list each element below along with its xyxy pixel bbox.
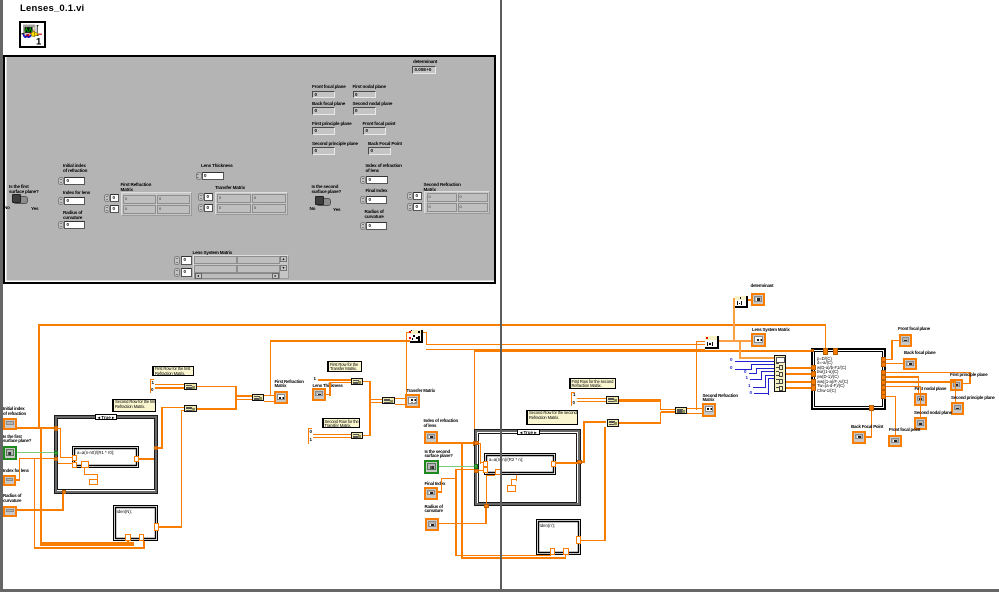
page divider line [500, 0, 502, 589]
comment: Second Row for the first Refraction Matrix [112, 399, 156, 413]
formula node top tunnels [823, 348, 828, 355]
wires: build arrays to merge1 [197, 386, 237, 388]
FP: Back Focal Point [368, 141, 402, 146]
FP: Lens Thickness [201, 163, 233, 168]
case structure 2 [474, 429, 581, 506]
wire: radius2 to case2 bottom tunnel [439, 523, 487, 525]
terminal: determinant (indicator) [750, 284, 780, 308]
build array: first refraction row1 [184, 383, 197, 390]
FP: First principle plane [312, 121, 351, 126]
formula node left tunnels [811, 365, 816, 371]
comment: First Row for the second Refraction Matrix [569, 378, 616, 389]
terminal: Radius of curvature 2 (control) [425, 505, 455, 533]
wire: final index to case2 left tunnel + down branch to Iden2 [438, 491, 442, 493]
FP: Lens System Matrix [193, 250, 233, 255]
wire: index for lens to case1 [16, 479, 20, 481]
formula node 2 terminals [483, 461, 488, 467]
constants 1,0 for second refraction row1 [571, 392, 572, 407]
wire: boolean2 to case2 selector [439, 466, 474, 467]
terminal: Transfer Matrix (indicator) [405, 389, 435, 411]
formula node 2 [484, 453, 556, 475]
formula node 1 [72, 446, 139, 468]
FP: determinant [413, 59, 437, 64]
build array: merge second refraction matrix [675, 407, 688, 414]
build array: merge first refraction matrix [252, 394, 264, 401]
terminal: Back focal plane (indicator) [903, 351, 935, 373]
FP: Second nodal plane [353, 101, 393, 106]
formula node 1 terminals [72, 455, 77, 461]
formula node: Iden1 [113, 505, 158, 541]
wire: branch down to Iden1 (thin) [34, 458, 35, 549]
build array: transfer row1 [351, 378, 363, 385]
wire: thick bottom run to Iden1 [40, 542, 134, 546]
wire: out to Second nodal plane [886, 386, 921, 388]
FP: Radius of curvature (1) [63, 210, 82, 220]
node: matrix multiply 2 [705, 336, 719, 349]
FP: Initial index of refraction [63, 163, 87, 173]
case1 selector [95, 414, 117, 420]
FP: First Refraction Matrix [121, 182, 152, 192]
formula node: Iden2 [536, 519, 581, 555]
big formula node: cardinal points [811, 348, 887, 410]
FP: Front focal plane [312, 84, 346, 89]
VI title [20, 3, 84, 14]
wire: determinant to indicator [748, 299, 752, 301]
wire: case1 output to build array row2 [139, 458, 155, 460]
FP: Index for lens [63, 190, 90, 195]
terminal: Second principle plane (indicator) [951, 396, 999, 416]
wire: merge2 to Transfer Matrix terminal [395, 398, 406, 405]
terminal: Second Refraction Matrix (indicator) [702, 394, 734, 418]
case2 tunnels [474, 441, 479, 446]
wires: transfer rows to merge2 [363, 381, 371, 383]
wire: top long run (n0 to big formula node) [38, 324, 826, 326]
terminal: Lens System Matrix (indicator) [751, 328, 787, 350]
wire: boolean to case1 selector [17, 452, 55, 453]
terminal: Index for lens (control) [3, 469, 33, 487]
wire: n0 terminal to case1 tunnel [16, 427, 56, 429]
constants 1,0 for first refraction row1 [150, 379, 151, 393]
FP: First nodal plane [353, 84, 386, 89]
wire: case2 output up to build array [556, 462, 578, 464]
terminal: Index of refraction of lens (control) [424, 419, 458, 445]
wire: first refraction matrix to multiply1 input [270, 340, 410, 342]
build array: second refraction row1 [606, 396, 619, 404]
front panel background [3, 55, 496, 284]
formula node 1 sub-constant [89, 479, 99, 486]
wire: bottom tunnel to Back Focal Point [871, 411, 873, 437]
terminal: Is the first surface plane? (boolean control) [3, 435, 37, 461]
build array: transfer row2 [351, 432, 363, 440]
wire: out to Front focal point [886, 396, 896, 398]
window bottom scrollbar strip [0, 589, 999, 592]
comment: Second Row for the second Refraction Matrix [526, 410, 578, 425]
wire: out to First principle plane [886, 372, 971, 374]
wire: up branch to determinant node [733, 298, 735, 342]
terminal: Initial index of refraction (control) [3, 407, 33, 431]
wire: n to case2 tunnel + up branch to formula node [438, 442, 474, 444]
wire: Iden1 output up to build array row2 input2 [159, 526, 183, 528]
wire: transfer matrix up to multiply1 [406, 332, 408, 394]
terminal: Is the second surface plane? (boolean control) [424, 450, 458, 476]
wire: radius1 to case1 bottom tunnel [17, 509, 64, 511]
comment: First Row for the Transfer Matrix [327, 361, 362, 372]
node: matrix multiply 1 (A x B) [406, 332, 410, 333]
terminal: Lens Thickness (control) [312, 384, 342, 402]
VI icon [19, 21, 46, 48]
wire: down branch to index array [739, 341, 741, 359]
wire: n0 vertical riser (up to top run, down to bottom run) [38, 324, 40, 428]
window left scrollbar strip [0, 0, 3, 592]
constant 1 for transfer row1 [314, 377, 317, 382]
formula node bottom tunnel [869, 405, 874, 411]
wire: multiply2 output to Lens System Matrix terminal [719, 340, 751, 342]
FP: Front focal point [363, 121, 396, 126]
node: determinant function [735, 296, 748, 308]
build array: first refraction row2 [184, 405, 197, 412]
terminal: First principle plane (indicator) [950, 373, 990, 393]
comment: First Row for the first Refraction Matrix [152, 366, 194, 377]
build array: second refraction row2 [607, 419, 620, 427]
terminal: Radius of curvature 1 (control) [3, 494, 33, 518]
terminal: Second nodal plane (indicator) [914, 411, 950, 431]
case1 interior wiring [58, 428, 61, 429]
wires: second refraction rows to merge3 [619, 399, 661, 402]
formula node right tunnels [881, 357, 886, 362]
terminal: First nodal plane (indicator) [914, 387, 946, 407]
wire: out to Front focal plane [886, 359, 893, 361]
node: index array [774, 355, 786, 392]
wires: index array outputs to formula node left tunnels [786, 367, 812, 369]
wire: out to First nodal plane [886, 376, 919, 378]
FP: Is the first surface plane? switch [9, 184, 39, 194]
case2 selector [517, 429, 540, 435]
terminal: Front focal plane (indicator) [898, 327, 930, 349]
wire: out to Back focal plane [886, 363, 903, 365]
build array: merge transfer matrix [382, 397, 395, 404]
FP: Radius of curvature (2) [365, 209, 384, 219]
wire: merge3 to Second Refraction Matrix terminal + up to multiply2 [687, 408, 702, 414]
FP: Back focal plane [312, 101, 345, 106]
constants 0,1 for transfer row2 [308, 428, 309, 444]
comment: Second Row for the Transfer Matrix [322, 418, 360, 428]
terminal: Back Focal Point (indicator) [850, 425, 882, 445]
wire: merge1 to First Refraction Matrix terminal + up branch [264, 395, 274, 402]
terminal: Front focal point (indicator) [888, 428, 920, 448]
wire: multiply1 output (2D) to multiply2 [423, 332, 428, 334]
terminal: First Refraction Matrix (indicator) [274, 380, 304, 405]
wire: Iden2 output up to build array2 [581, 540, 606, 542]
case structure 1 [54, 415, 159, 494]
wire: lens thickness to build array transfer row1 [326, 394, 331, 395]
case2 interior wiring [479, 443, 482, 444]
FP: Final Index [366, 188, 388, 193]
terminal: Final Index (control) [424, 482, 454, 502]
FP: Second Refraction Matrix [424, 182, 461, 192]
wire: out to Second principle plane [886, 381, 956, 383]
FP: Transfer Matrix [215, 185, 245, 190]
FP: Index of refraction of lens [366, 163, 402, 173]
FP: Second principle plane [312, 141, 358, 146]
wire: n branch down to Iden2 [461, 443, 462, 559]
case1 tunnels [54, 426, 59, 431]
blue integer constants and wires to index array [730, 358, 733, 363]
svg-text:1: 1 [36, 37, 42, 47]
formula node 2 sub-constant [507, 485, 516, 492]
FP: Is the second surface plane? switch [312, 184, 342, 194]
